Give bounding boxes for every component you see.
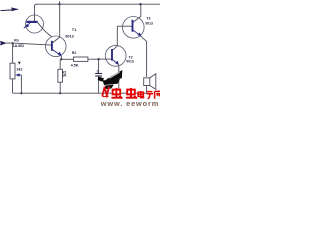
transistor T3 emitter with arrow	[133, 30, 141, 36]
node junction emitter/R1/R2	[60, 58, 62, 60]
wire T3 emitter to speaker	[141, 36, 147, 77]
transistor T3 collector	[133, 4, 140, 22]
wire pot bottom lead	[12, 79, 14, 93]
watermark text 虫虫 (drawn)	[111, 88, 136, 99]
svg-text:142: 142	[16, 68, 22, 72]
wire ground bottom rail	[13, 92, 147, 94]
resistor R2 body	[73, 57, 88, 61]
wire capacitor bottom lead	[98, 77, 100, 94]
potentiometer RP body	[10, 63, 15, 79]
label pot marker	[18, 62, 21, 65]
transistor T3 circle	[123, 17, 145, 39]
svg-text:R2: R2	[72, 51, 77, 55]
transistor T1 circle	[46, 36, 67, 57]
node junction wiper on ground rail	[20, 92, 22, 94]
svg-text:C: C	[97, 69, 100, 73]
svg-text:9013: 9013	[126, 59, 134, 63]
watermark bug red tail	[102, 87, 109, 97]
wire pot wiper down	[20, 75, 22, 93]
svg-text:1K: 1K	[62, 74, 67, 78]
transistor T2 base bar	[111, 49, 113, 61]
wire pot top lead	[12, 44, 14, 63]
wire top supply rail	[35, 4, 161, 15]
node junction T3 collector on rail	[139, 3, 141, 5]
wire capacitor top lead	[98, 59, 100, 73]
wire speaker bottom	[146, 86, 148, 94]
phototransistor PT circle	[26, 15, 44, 33]
speaker LS body	[144, 78, 150, 86]
wire T2 collector to T3 base	[117, 25, 132, 27]
phototransistor PT base lead	[34, 15, 36, 21]
transistor T1 collector	[53, 4, 60, 42]
svg-text:www. eeworm: www. eeworm	[100, 99, 159, 108]
wire R2 right to junction	[88, 58, 99, 60]
node junction R1 on ground rail	[59, 92, 61, 94]
capacitor C plates	[95, 73, 102, 75]
svg-text:4.5K: 4.5K	[71, 63, 79, 67]
resistor R1 body	[59, 59, 61, 69]
node junction T1 collector on rail (with tick)	[59, 1, 61, 4]
svg-text:9013: 9013	[145, 22, 153, 26]
wire T2 emitter down to ground	[118, 65, 120, 93]
node junction pot top on Rx wire	[12, 42, 14, 44]
svg-text:T1: T1	[72, 27, 77, 32]
speaker LS cone	[150, 74, 156, 90]
transistor T2 emitter with arrow	[113, 60, 119, 65]
svg-text:1A.5SI: 1A.5SI	[13, 43, 24, 48]
wire T1 emitter to junction	[60, 56, 62, 59]
svg-text:9013: 9013	[65, 33, 74, 38]
svg-text:T3: T3	[146, 16, 150, 20]
arrow input 2	[0, 41, 7, 46]
watermark text 电子网 (drawn)	[138, 91, 160, 99]
phototransistor PT base bar	[26, 21, 37, 23]
potentiometer RP wiper arrow	[17, 74, 21, 76]
phototransistor PT collector lead to T1	[37, 22, 51, 36]
wire junction to T2 base	[99, 58, 112, 60]
transistor T2 circle	[105, 45, 126, 66]
watermark bug logo	[98, 70, 123, 89]
node junction R2/C/T2 base	[97, 58, 99, 60]
wire base of T1 (Rx wire)	[6, 43, 52, 45]
arrow light input 1	[1, 7, 20, 11]
transistor T1 emitter with arrow	[53, 50, 61, 56]
transistor T2 collector to T3 base	[113, 26, 118, 50]
transistor T1 base bar	[51, 41, 53, 51]
transistor T3 base bar	[132, 20, 134, 32]
wire R1 bottom	[59, 82, 61, 93]
wire junction to R2	[61, 58, 73, 60]
phototransistor PT emitter with arrow	[24, 23, 30, 28]
